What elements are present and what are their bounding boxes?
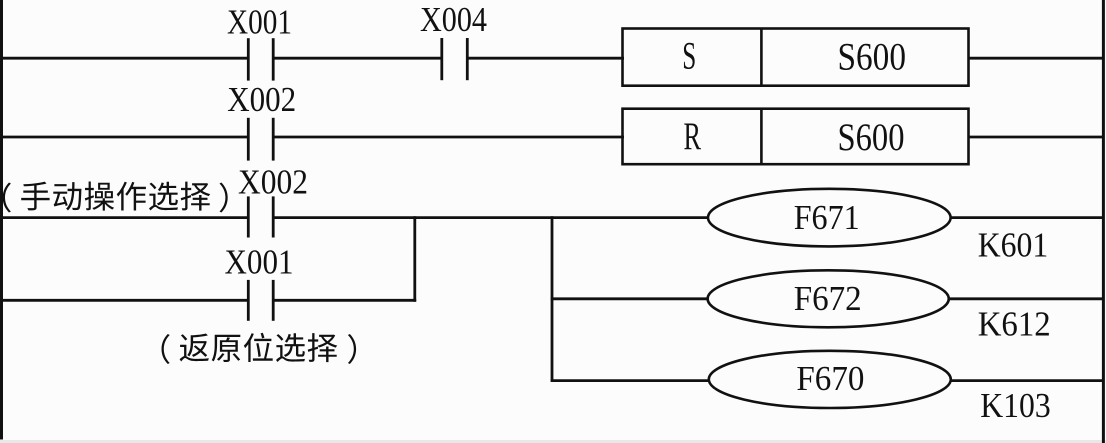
box S divider [760,29,763,86]
note (manual operation select) char 动 [53,182,81,210]
svg-text:F670: F670 [796,359,864,398]
branch junction wire (coil bus) [551,216,554,382]
wire rung3 right [950,216,1103,219]
svg-text:S: S [682,34,696,78]
note (return origin select) char 原 [212,335,241,362]
note (return origin select) char 位 [244,333,273,362]
svg-text:K103: K103 [980,386,1050,425]
note (manual operation select) open paren [3,183,11,213]
wire rung1 mid2 [467,57,624,60]
svg-text:K601: K601 [978,225,1048,264]
wire F670 branch right [951,379,1103,382]
box R S600 (reset coil) [623,109,969,165]
svg-text:X004: X004 [420,1,487,39]
box R divider [760,109,763,165]
wire F672 branch right [949,297,1103,300]
wire rung1 right [968,57,1104,60]
contact X004 (rung1) [440,38,443,80]
note (return origin select) open paren [162,334,170,364]
svg-text:S600: S600 [838,35,907,79]
contact X001 (rung1) [247,38,250,80]
wire rung2 right [968,136,1104,139]
contact X001 (rung4) [247,280,250,321]
svg-text:X002: X002 [227,81,296,119]
note (manual operation select) char 择 [181,182,211,211]
bottom page rule (faint) [0,440,1106,443]
svg-text:X001: X001 [227,4,292,42]
note (return origin select) char 择 [308,333,338,362]
left power rail [0,0,3,440]
coil F671 [708,189,951,247]
note (return origin select) close paren [348,334,356,364]
wire F672 branch left [551,297,709,300]
svg-text:X002: X002 [238,164,308,202]
note (manual operation select) close paren [220,183,228,213]
right power rail [1102,0,1105,443]
svg-text:F671: F671 [794,198,860,237]
note (manual operation select) char 作 [117,182,146,211]
note (manual operation select) char 选 [149,182,178,211]
note (return origin select) char 返 [180,334,209,362]
wire rung2 left [0,136,249,139]
box S S600 (set coil) [623,29,969,86]
wire rung3 mid [273,216,709,219]
svg-text:X001: X001 [225,244,294,282]
coil F670 [709,351,951,408]
svg-text:S600: S600 [838,115,905,159]
contact X002 (rung2) [247,118,250,161]
coil F672 [708,270,949,327]
wire rung1 left [0,57,249,60]
wire rung4 left [0,299,249,302]
note (return origin select) char 选 [276,333,305,362]
svg-text:F672: F672 [794,279,862,318]
note (manual operation select) char 操 [85,182,114,211]
wire rung3 left [0,216,249,219]
contact X002 (rung3) [247,196,250,237]
wire rung2 mid [273,136,624,139]
svg-text:R: R [684,114,702,158]
wire rung4 to junction [273,299,416,302]
wire rung1 mid1 [273,57,442,60]
note (manual operation select) char 手 [21,182,49,211]
wire F670 branch left [551,379,710,382]
svg-text:K612: K612 [978,305,1051,344]
branch junction wire (parallel X001) [413,216,416,302]
